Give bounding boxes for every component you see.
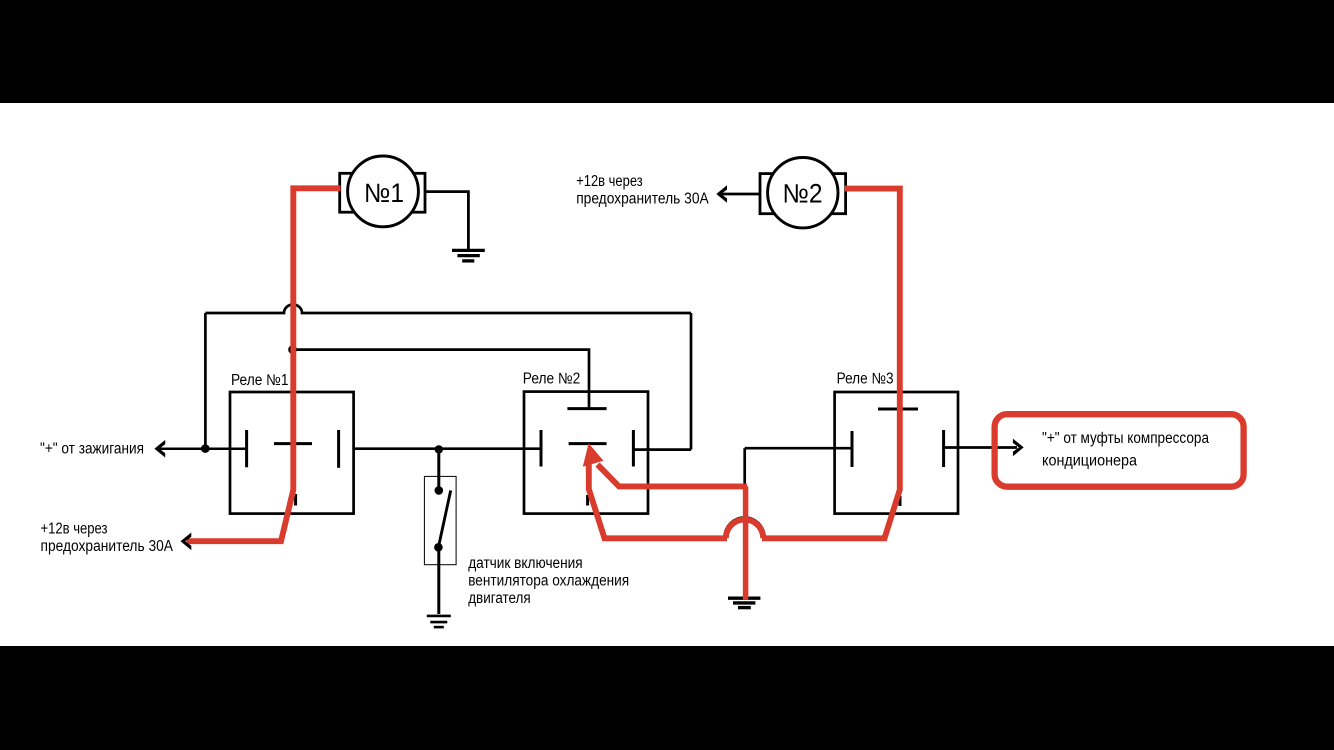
relay K2 box (524, 392, 648, 514)
node junction on ignition wire (201, 444, 210, 453)
ignition feed wire (159, 447, 247, 450)
sensor switch bottom contact dot (434, 543, 443, 552)
wire M1 right terminal to ground (425, 192, 468, 250)
red wire M1 to fuse (left) (187, 188, 341, 541)
svg-text:"+" от муфты компрессора: "+" от муфты компрессора (1042, 430, 1209, 447)
red bottom run left of hop (589, 458, 727, 538)
relay K3 output wire (944, 446, 1017, 449)
svg-text:+12в через: +12в через (576, 173, 643, 190)
svg-text:кондиционера: кондиционера (1042, 452, 1137, 469)
svg-text:предохранитель 30А: предохранитель 30А (41, 538, 174, 555)
wire relay K3 left pin (745, 447, 852, 450)
bottom letterbox bar (0, 646, 1334, 750)
red branch relay K2 to ground riser (598, 465, 748, 487)
relay K3 left contact bar (851, 431, 854, 467)
ground for sensor switch (427, 616, 451, 627)
arrowhead to +12v fuse label (top) (716, 185, 727, 203)
svg-text:№2: №2 (783, 179, 823, 209)
svg-text:предохранитель 30А: предохранитель 30А (576, 190, 709, 207)
relay K3 box (835, 392, 958, 514)
right riser of top bus to relay3 area (690, 313, 693, 450)
relay K1 bottom pin tick (294, 494, 297, 506)
wire switch to ground (437, 547, 440, 614)
svg-text:двигателя: двигателя (468, 590, 531, 607)
wire relay K1 to relay K2 (354, 447, 541, 450)
svg-text:Реле №1: Реле №1 (231, 372, 289, 389)
svg-text:+12в через: +12в через (41, 521, 108, 538)
center ground bars (728, 598, 760, 607)
wire junction down to sensor switch (437, 449, 440, 490)
relay K3 bottom pin tick (899, 496, 902, 506)
top letterbox bar (0, 0, 1334, 103)
svg-text:"+" от зажигания: "+" от зажигания (40, 440, 144, 457)
svg-text:Реле №3: Реле №3 (837, 371, 894, 388)
top bus wire with hop over red riser (205, 305, 691, 314)
motor M2 body circle (768, 158, 838, 228)
node junction on red riser (288, 345, 297, 354)
black arrowhead to +12v fuse label (bottom left) (181, 533, 192, 551)
red callout box "+" от муфты компрессора кондиционера (995, 414, 1244, 487)
relay K2 bottom pin tick (586, 495, 589, 506)
motor M2 terminal rect (760, 174, 846, 214)
ground for M1 (452, 250, 485, 261)
relay K3 coil top bar (878, 408, 918, 411)
relay K1 center bar (274, 442, 312, 445)
relay K2 left contact bar (540, 430, 543, 467)
arrowhead into compressor clutch box (1013, 439, 1024, 457)
relay K2 center bar (569, 442, 607, 445)
black crest of hop arc at center ground riser (725, 518, 765, 538)
second bus wire to relay2 coil (293, 350, 589, 409)
arrowhead "+" от зажигания (154, 440, 165, 458)
wire M2 left terminal (718, 193, 760, 196)
relay K1 box (230, 392, 354, 514)
relay K3 right contact bar (942, 430, 945, 467)
sensor switch lever (438, 490, 450, 547)
red wire M2 riser through relay K3 to bottom run (762, 189, 900, 539)
relay K1 left contact bar (245, 430, 248, 467)
svg-text:вентилятора охлаждения: вентилятора охлаждения (468, 573, 629, 590)
red arrowhead at relay K2 center bar (583, 443, 604, 467)
svg-text:датчик включения: датчик включения (468, 555, 583, 572)
black riser down from relay K3 left-pin wire (743, 448, 746, 486)
svg-text:№1: №1 (364, 178, 404, 208)
sensor switch top contact dot (435, 486, 444, 495)
red hop arc over ground riser (726, 520, 763, 539)
relay2 switched-pin stub wire (633, 448, 691, 451)
left riser of top bus (204, 313, 207, 448)
relay K1 right contact bar (337, 430, 340, 468)
relay K2 right contact bar (632, 430, 635, 467)
sensor switch box (424, 476, 456, 564)
relay K2 coil top bar (567, 407, 606, 410)
motor M1 terminal rect (340, 173, 425, 212)
red ground riser (743, 486, 749, 599)
svg-text:Реле №2: Реле №2 (523, 371, 581, 388)
node junction above sensor switch (435, 445, 443, 453)
motor M1 body circle (348, 156, 419, 227)
